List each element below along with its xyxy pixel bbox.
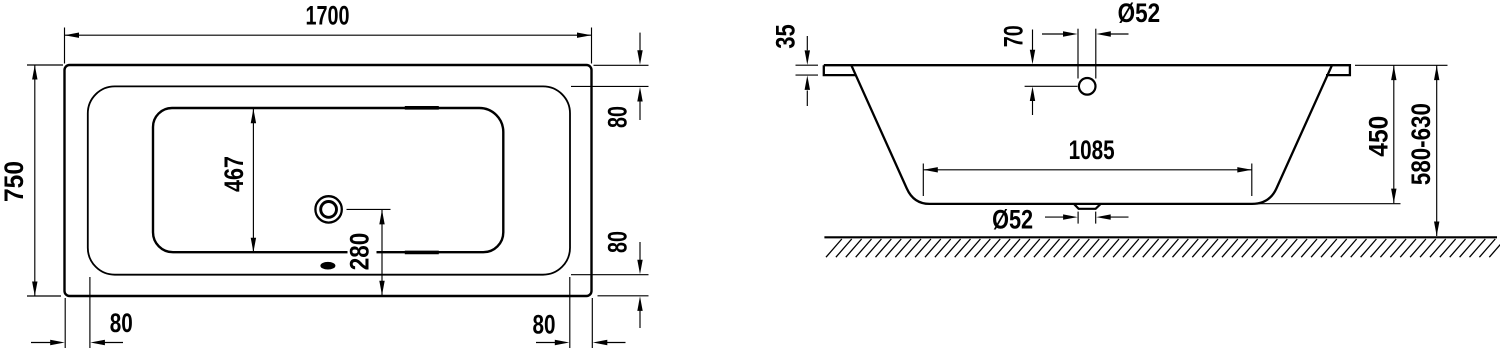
dimension 35 rim thickness <box>770 24 818 106</box>
dimension 80 rim offset bottom left <box>31 277 133 348</box>
dimension 467 basin floor width <box>219 109 256 253</box>
dimension 1085 basin floor length <box>923 135 1252 196</box>
floor line <box>824 236 1497 238</box>
dimension 580-630 installed height <box>1355 65 1448 236</box>
bathtub basin floor edge (top view) <box>153 108 503 252</box>
svg-text:80: 80 <box>533 309 556 339</box>
svg-text:80: 80 <box>602 106 632 128</box>
svg-text:280: 280 <box>345 233 375 271</box>
svg-text:80: 80 <box>602 231 632 253</box>
dimension 80 rim offset bottom right <box>571 231 649 328</box>
bathtub outer rim (top view) <box>65 65 592 296</box>
svg-text:580-630: 580-630 <box>1406 103 1436 185</box>
dimension 750 overall width <box>0 65 63 296</box>
svg-text:80: 80 <box>110 308 133 338</box>
overflow hole (side section) <box>1079 78 1096 95</box>
bathtub profile (side section) <box>824 65 1350 204</box>
dimension diameter 52 drain <box>992 204 1128 234</box>
svg-text:1085: 1085 <box>1069 135 1115 165</box>
dimension 80 rim offset top right <box>571 33 649 128</box>
svg-text:450: 450 <box>1363 116 1393 157</box>
bathtub inner rim edge (top view) <box>88 86 570 274</box>
svg-text:1700: 1700 <box>306 0 350 30</box>
dimension 70 overflow offset <box>998 25 1077 115</box>
svg-text:Ø52: Ø52 <box>992 204 1033 234</box>
dimension 80 rim offset bottom right horizontal <box>533 277 626 348</box>
svg-text:467: 467 <box>219 156 249 192</box>
drain recess (side section) <box>1074 204 1101 209</box>
dimension diameter 52 overflow <box>1042 0 1160 78</box>
grip mark on basin edge bottom <box>405 251 439 255</box>
dimension 1700 overall length <box>65 0 592 63</box>
svg-text:750: 750 <box>0 161 29 202</box>
grip mark on basin edge <box>405 106 439 110</box>
svg-text:35: 35 <box>770 24 800 49</box>
dimension 450 tub height <box>1252 65 1401 203</box>
floor hatching <box>826 239 1500 257</box>
svg-text:Ø52: Ø52 <box>1118 0 1161 28</box>
overflow hole (top view) <box>320 262 335 270</box>
svg-text:70: 70 <box>998 25 1028 47</box>
dimension 280 drain offset <box>345 209 391 295</box>
drain waste (top view) <box>315 196 341 222</box>
